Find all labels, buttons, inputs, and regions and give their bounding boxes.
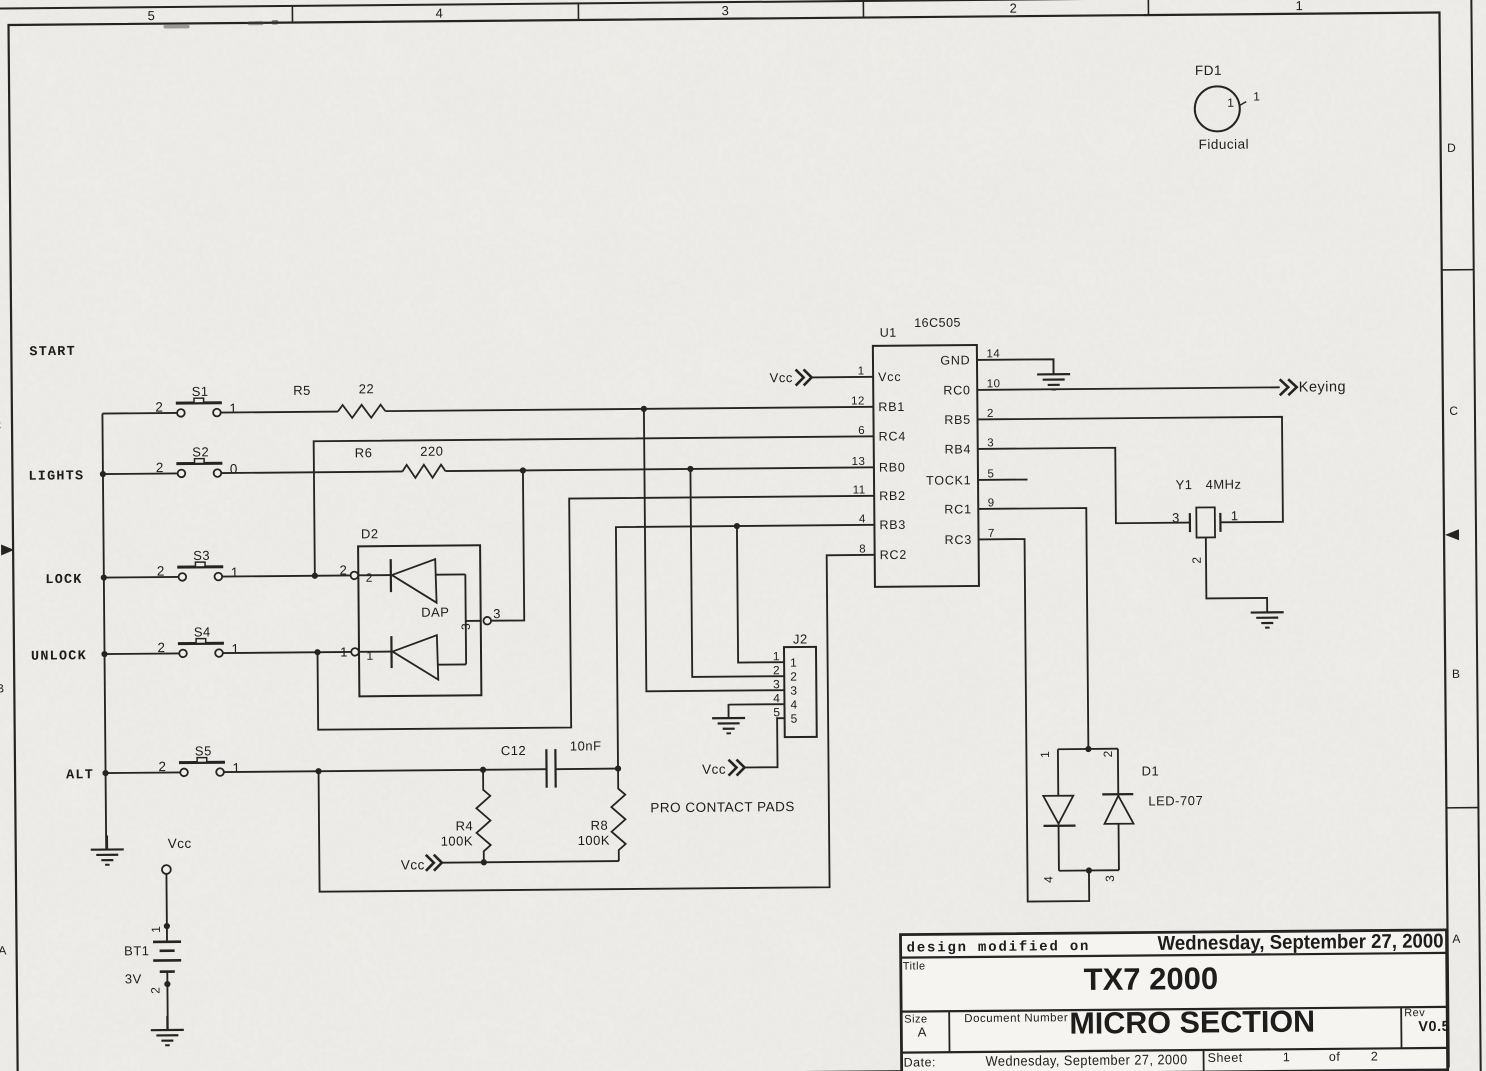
diode pack D2 outline bbox=[358, 545, 481, 696]
svg-text:1: 1 bbox=[790, 656, 797, 670]
svg-text:5: 5 bbox=[773, 705, 780, 719]
D2 pin 1 bbox=[351, 648, 359, 656]
D2 pin 3 bbox=[466, 620, 481, 622]
svg-text:3: 3 bbox=[1103, 875, 1117, 882]
svg-text:UNLOCK: UNLOCK bbox=[31, 649, 87, 664]
svg-text:1: 1 bbox=[1038, 751, 1052, 758]
svg-text:Vcc: Vcc bbox=[878, 370, 901, 384]
power port Vcc at J2 pin5 bbox=[728, 759, 744, 775]
svg-text:RB4: RB4 bbox=[944, 442, 971, 456]
resistor R4 bbox=[476, 770, 491, 863]
wire RB4 to crystal pin3 bbox=[978, 447, 1190, 524]
svg-text:S2: S2 bbox=[192, 444, 209, 459]
wire Vcc terminal to BT1 bbox=[165, 874, 168, 942]
J2 pin5 Vcc wire bbox=[744, 718, 785, 767]
svg-text:RB0: RB0 bbox=[879, 460, 906, 474]
stub TOCK1 pin5 bbox=[978, 479, 1027, 481]
svg-text:MICRO SECTION: MICRO SECTION bbox=[1069, 1005, 1315, 1041]
svg-text:R6: R6 bbox=[355, 445, 373, 460]
resistor R5 bbox=[338, 405, 386, 418]
svg-text:22: 22 bbox=[359, 381, 375, 396]
svg-text:Wednesday, September 27, 2000: Wednesday, September 27, 2000 bbox=[1157, 930, 1443, 954]
svg-text:U1: U1 bbox=[880, 326, 897, 340]
svg-text:Fiducial: Fiducial bbox=[1199, 137, 1250, 152]
svg-text:S5: S5 bbox=[195, 743, 212, 758]
ground at BT1 bbox=[151, 1016, 184, 1045]
svg-text:4: 4 bbox=[436, 6, 444, 21]
svg-text:2: 2 bbox=[155, 400, 163, 415]
ground at U1 pin14 bbox=[1037, 360, 1070, 389]
wire S5 to C12/R4 bbox=[224, 769, 546, 772]
svg-text:D2: D2 bbox=[361, 526, 379, 541]
junction R8 top / RB3 riser bbox=[615, 765, 621, 771]
svg-text:R4: R4 bbox=[455, 818, 473, 833]
svg-text:4: 4 bbox=[859, 513, 866, 525]
svg-text:Keying: Keying bbox=[1299, 379, 1346, 395]
wire RC0 to Keying bbox=[977, 387, 1279, 390]
resistor R8 bbox=[611, 769, 626, 862]
svg-text:RC3: RC3 bbox=[945, 533, 973, 547]
svg-text:2: 2 bbox=[1190, 556, 1204, 563]
wire U1 RC4 to LOCK row bbox=[314, 436, 875, 575]
LED D1 bottom rail bbox=[1059, 869, 1119, 872]
svg-text:2: 2 bbox=[156, 460, 164, 475]
svg-text:FD1: FD1 bbox=[1195, 63, 1222, 78]
switch S3 bbox=[157, 548, 239, 581]
svg-text:2: 2 bbox=[157, 564, 165, 579]
title block frame bbox=[900, 930, 1447, 1071]
junction bus-UNLOCK bbox=[101, 651, 107, 657]
junction LOCK/RC4 bbox=[312, 573, 318, 579]
svg-text:3: 3 bbox=[721, 3, 729, 18]
svg-text:1: 1 bbox=[340, 644, 348, 659]
svg-text:1: 1 bbox=[1231, 508, 1239, 523]
J2 pin4 ground wire bbox=[728, 703, 784, 705]
wire riser to J2 pin1 area bbox=[644, 408, 784, 692]
svg-text:2: 2 bbox=[987, 408, 994, 420]
svg-text:1: 1 bbox=[1283, 1050, 1291, 1064]
svg-text:1: 1 bbox=[1253, 89, 1260, 103]
svg-text:8: 8 bbox=[859, 543, 866, 555]
svg-text:S4: S4 bbox=[194, 624, 211, 639]
wire bus to S1 bbox=[102, 412, 176, 415]
switch S5 bbox=[158, 743, 240, 776]
LED D1 top rail bbox=[1058, 748, 1118, 751]
svg-text:10: 10 bbox=[987, 378, 1001, 390]
LED D1 left diode (down) bbox=[1043, 749, 1076, 871]
connector J2 box bbox=[784, 647, 817, 737]
junction LIGHTS/J2pin2 riser bbox=[687, 466, 693, 472]
svg-text:10nF: 10nF bbox=[570, 738, 602, 753]
wire RB3 riser to U1 bbox=[616, 525, 877, 769]
svg-text:1: 1 bbox=[229, 401, 237, 416]
wire S2 to R6 bbox=[221, 471, 402, 473]
svg-text:4: 4 bbox=[790, 698, 797, 712]
svg-text:5: 5 bbox=[987, 468, 994, 480]
wire S4 to D2 pin1 bbox=[223, 652, 351, 653]
fiducial FD1 bbox=[1194, 62, 1260, 152]
svg-text:2: 2 bbox=[339, 562, 347, 577]
svg-text:2: 2 bbox=[773, 663, 780, 677]
wire R6 to U1 RB0 bbox=[445, 467, 873, 471]
svg-text:B: B bbox=[1452, 667, 1461, 681]
svg-text:V0.5: V0.5 bbox=[1418, 1019, 1450, 1035]
svg-text:13: 13 bbox=[852, 456, 866, 468]
svg-text:RB2: RB2 bbox=[879, 489, 906, 503]
svg-text:5: 5 bbox=[148, 8, 156, 23]
wire RB5 to crystal pin1 bbox=[978, 417, 1283, 525]
svg-text:4: 4 bbox=[773, 691, 780, 705]
D2 diode A (top, cathode bar left) bbox=[358, 558, 465, 603]
wire ALT loop to U1 RC2 bbox=[317, 555, 878, 892]
svg-text:ALT: ALT bbox=[66, 768, 94, 783]
svg-text:A: A bbox=[918, 1024, 927, 1039]
svg-text:TX7 2000: TX7 2000 bbox=[1084, 961, 1219, 997]
svg-text:16C505: 16C505 bbox=[914, 316, 961, 330]
wire Vcc rail under R4/R8 bbox=[442, 861, 619, 863]
resistor R6 bbox=[402, 465, 445, 478]
wire GND pin14 bbox=[977, 359, 1054, 375]
svg-text:of: of bbox=[1329, 1050, 1341, 1064]
svg-text:1: 1 bbox=[149, 925, 163, 932]
svg-text:C: C bbox=[1449, 404, 1458, 418]
svg-text:J2: J2 bbox=[793, 631, 808, 646]
Y1 pin2 wire to ground bbox=[1206, 537, 1267, 599]
svg-text:3: 3 bbox=[493, 606, 501, 621]
wire riser LIGHTS to D2 pin3 bbox=[490, 470, 524, 620]
border frame top strip line bbox=[0, 0, 1457, 9]
svg-text:C12: C12 bbox=[501, 743, 526, 758]
svg-text:A: A bbox=[0, 943, 7, 957]
svg-text:Vcc: Vcc bbox=[770, 370, 793, 385]
svg-text:RC1: RC1 bbox=[944, 502, 972, 516]
svg-text:4: 4 bbox=[1041, 876, 1055, 883]
svg-text:3: 3 bbox=[987, 437, 994, 449]
ground at Y1 pin2 bbox=[1251, 598, 1284, 627]
svg-text:R5: R5 bbox=[293, 383, 311, 398]
svg-text:1: 1 bbox=[231, 641, 239, 656]
svg-text:D: D bbox=[1447, 141, 1456, 155]
junction RC1/D1 bbox=[1085, 746, 1091, 752]
wire RC1 to D1 top bbox=[978, 508, 1088, 750]
svg-text:1: 1 bbox=[232, 760, 240, 775]
svg-text:2: 2 bbox=[1101, 750, 1115, 757]
switch S2 bbox=[156, 444, 238, 477]
junction LIGHTS/D2pin3 riser bbox=[520, 467, 526, 473]
svg-text:4MHz: 4MHz bbox=[1206, 477, 1242, 492]
power port Vcc at R4 rail bbox=[426, 855, 442, 871]
svg-text:1: 1 bbox=[231, 565, 239, 580]
ground bus bottom bbox=[91, 835, 124, 864]
svg-text:2: 2 bbox=[157, 640, 165, 655]
wire riser to J2 pin2 bbox=[690, 468, 784, 677]
svg-text:RC4: RC4 bbox=[879, 429, 907, 443]
junction bus-LIGHTS bbox=[100, 471, 106, 477]
svg-text:Document Number: Document Number bbox=[964, 1012, 1068, 1025]
battery BT1 bbox=[153, 942, 181, 972]
svg-text:1: 1 bbox=[1295, 0, 1303, 13]
svg-text:S1: S1 bbox=[192, 384, 209, 399]
svg-text:LED-707: LED-707 bbox=[1148, 793, 1203, 808]
svg-text:Y1: Y1 bbox=[1176, 477, 1193, 492]
switch S4 bbox=[157, 624, 239, 657]
svg-text:1: 1 bbox=[858, 365, 865, 377]
LED D1 right diode (up) bbox=[1102, 749, 1134, 871]
svg-text:RB1: RB1 bbox=[878, 400, 905, 414]
svg-text:12: 12 bbox=[851, 395, 865, 407]
right zone strip divider D/C bbox=[1442, 269, 1474, 271]
D2 diode B (bottom, cathode bar left) bbox=[359, 635, 466, 680]
scan smudge on top border bbox=[164, 25, 190, 29]
svg-text:Vcc: Vcc bbox=[702, 762, 726, 777]
wire bus to S4 bbox=[105, 652, 179, 655]
junction bus-ALT bbox=[102, 770, 108, 776]
svg-text:B: B bbox=[0, 681, 5, 695]
svg-text:1: 1 bbox=[773, 649, 780, 663]
wire RC3 to D1 bottom bbox=[979, 539, 1090, 902]
junction RB1/J2 riser bbox=[641, 406, 647, 412]
wire bus to S2 bbox=[103, 472, 177, 475]
junction bus-LOCK bbox=[101, 574, 107, 580]
D2 internal common wire bbox=[464, 574, 467, 664]
svg-text:2: 2 bbox=[1371, 1049, 1379, 1063]
junction ALT/RC2 riser bbox=[315, 768, 321, 774]
wire BT1 to ground bbox=[166, 972, 169, 1030]
junction R4 bottom bbox=[481, 859, 487, 865]
svg-text:11: 11 bbox=[853, 484, 866, 496]
svg-text:3V: 3V bbox=[125, 971, 142, 986]
svg-text:2: 2 bbox=[148, 986, 162, 993]
wire riser to J2 pin1 bbox=[737, 526, 784, 663]
junction BT1 pin2 bbox=[164, 981, 170, 987]
svg-text:3: 3 bbox=[790, 684, 797, 698]
svg-text:GND: GND bbox=[940, 353, 970, 367]
wire S1 to R5 bbox=[221, 412, 338, 413]
wire R5 to U1 RB1 bbox=[385, 407, 873, 411]
crystal Y1 bbox=[1190, 507, 1221, 537]
junction RC3/D1 bbox=[1086, 867, 1092, 873]
power port Vcc at U1 pin1 bbox=[796, 369, 812, 385]
svg-text:BT1: BT1 bbox=[124, 943, 149, 958]
svg-text:TOCK1: TOCK1 bbox=[926, 473, 972, 487]
svg-text:0: 0 bbox=[230, 461, 238, 476]
svg-text:14: 14 bbox=[986, 348, 1000, 360]
capacitor C12 bbox=[546, 749, 555, 788]
wire S3 to D2 pin2 bbox=[222, 575, 350, 576]
D2 pin 2 bbox=[351, 572, 359, 580]
svg-text:2: 2 bbox=[366, 571, 373, 585]
junction RB3/J2pin1 riser bbox=[734, 523, 740, 529]
right zone strip divider B/A bbox=[1446, 807, 1478, 809]
wire bus to S3 bbox=[104, 576, 178, 579]
svg-text:DAP: DAP bbox=[421, 605, 449, 620]
wire left bus vertical bbox=[102, 414, 106, 850]
svg-text:S3: S3 bbox=[193, 548, 210, 563]
svg-text:D1: D1 bbox=[1142, 763, 1160, 778]
svg-text:Title: Title bbox=[903, 960, 926, 972]
svg-text:Wednesday, September 27, 2000: Wednesday, September 27, 2000 bbox=[986, 1051, 1188, 1069]
svg-text:Vcc: Vcc bbox=[401, 857, 425, 872]
svg-text:9: 9 bbox=[988, 497, 995, 509]
junction UNLOCK/RB2 riser bbox=[314, 649, 320, 655]
wire bus to S5 bbox=[106, 771, 180, 774]
svg-text:RB3: RB3 bbox=[879, 518, 906, 532]
svg-text:RC2: RC2 bbox=[880, 548, 908, 562]
svg-text:3: 3 bbox=[459, 623, 473, 630]
svg-text:RB5: RB5 bbox=[944, 413, 971, 427]
port Keying bbox=[1280, 379, 1297, 395]
switch S1 bbox=[155, 384, 237, 417]
svg-text:2: 2 bbox=[790, 670, 797, 684]
left fold arrow bbox=[1, 544, 14, 555]
svg-text:LOCK: LOCK bbox=[45, 573, 82, 588]
svg-text:START: START bbox=[29, 345, 76, 360]
border zone divider ticks top bbox=[291, 6, 293, 23]
svg-text:6: 6 bbox=[858, 425, 865, 437]
svg-text:7: 7 bbox=[988, 528, 995, 540]
svg-text:3: 3 bbox=[1172, 510, 1180, 525]
right outer border line bbox=[1471, 0, 1480, 1071]
junction R4 top bbox=[480, 767, 486, 773]
svg-text:3: 3 bbox=[773, 677, 780, 691]
svg-text:2: 2 bbox=[1009, 1, 1017, 16]
junction BT1 pin1 bbox=[164, 923, 170, 929]
svg-text:A: A bbox=[1452, 932, 1461, 946]
svg-text:Vcc: Vcc bbox=[168, 836, 192, 851]
svg-text:100K: 100K bbox=[578, 833, 611, 848]
svg-text:Date:: Date: bbox=[904, 1055, 937, 1069]
svg-text:220: 220 bbox=[420, 444, 443, 459]
right fold arrow bbox=[1445, 529, 1459, 540]
svg-text:5: 5 bbox=[791, 712, 798, 726]
svg-text:1: 1 bbox=[1227, 96, 1234, 110]
svg-text:LIGHTS: LIGHTS bbox=[28, 469, 84, 484]
op IC U1 16C505 box bbox=[873, 345, 979, 587]
svg-text:RC0: RC0 bbox=[943, 383, 971, 397]
svg-text:Rev: Rev bbox=[1404, 1007, 1425, 1019]
svg-text:design modified on: design modified on bbox=[907, 939, 1091, 957]
wire UNLOCK loop to U1 RB2 bbox=[316, 496, 876, 730]
svg-text:C: C bbox=[0, 418, 2, 432]
svg-text:R8: R8 bbox=[590, 818, 608, 833]
svg-text:2: 2 bbox=[158, 759, 166, 774]
svg-text:100K: 100K bbox=[441, 833, 474, 848]
wire C12 to R8 top bbox=[556, 768, 618, 771]
ground at J2 pin4 bbox=[712, 704, 745, 733]
svg-text:PRO CONTACT PADS: PRO CONTACT PADS bbox=[650, 799, 795, 815]
svg-text:Sheet: Sheet bbox=[1208, 1051, 1243, 1065]
